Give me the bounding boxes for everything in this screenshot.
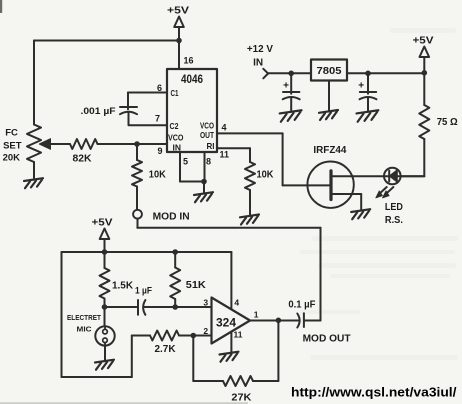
svg-text:LED: LED xyxy=(385,202,403,213)
svg-text:FC: FC xyxy=(5,127,18,138)
svg-text:51K: 51K xyxy=(186,280,207,291)
svg-text:5: 5 xyxy=(183,157,188,167)
svg-text:http://www.qsl.net/va3iul/: http://www.qsl.net/va3iul/ xyxy=(291,384,457,399)
svg-text:3: 3 xyxy=(203,297,208,307)
svg-text:+: + xyxy=(283,80,289,91)
svg-text:+5V: +5V xyxy=(167,6,189,17)
svg-text:C2: C2 xyxy=(170,121,179,131)
svg-text:R.S.: R.S. xyxy=(385,215,403,226)
svg-text:10K: 10K xyxy=(149,170,167,181)
svg-text:2.7K: 2.7K xyxy=(155,344,177,355)
svg-text:7805: 7805 xyxy=(317,65,342,77)
svg-text:8: 8 xyxy=(206,157,211,167)
svg-text:ELECTRET: ELECTRET xyxy=(67,313,101,322)
svg-text:+5V: +5V xyxy=(413,36,434,47)
svg-text:1.5K: 1.5K xyxy=(112,281,134,292)
svg-text:RI: RI xyxy=(207,141,215,151)
svg-text:IN: IN xyxy=(253,58,263,69)
svg-text:+5V: +5V xyxy=(92,217,113,228)
svg-text:MOD OUT: MOD OUT xyxy=(303,333,351,344)
svg-text:VCO: VCO xyxy=(200,122,214,131)
svg-text:16: 16 xyxy=(184,56,194,66)
svg-text:OUT: OUT xyxy=(200,131,214,140)
svg-text:75 Ω: 75 Ω xyxy=(437,117,458,128)
svg-text:2: 2 xyxy=(203,326,208,336)
svg-text:MOD IN: MOD IN xyxy=(153,212,190,223)
svg-text:C1: C1 xyxy=(171,88,179,98)
svg-text:1: 1 xyxy=(254,309,259,319)
svg-text:MIC: MIC xyxy=(77,325,93,334)
svg-text:4046: 4046 xyxy=(181,74,203,86)
svg-text:SET: SET xyxy=(3,141,22,152)
svg-text:7: 7 xyxy=(155,113,160,123)
svg-text:+12 V: +12 V xyxy=(247,44,273,55)
svg-text:11: 11 xyxy=(220,149,230,159)
svg-text:IN: IN xyxy=(173,143,182,152)
svg-text:27K: 27K xyxy=(231,392,251,404)
svg-text:9: 9 xyxy=(157,146,162,156)
svg-text:0.1 µF: 0.1 µF xyxy=(288,299,315,310)
svg-text:20K: 20K xyxy=(3,153,21,164)
svg-text:4: 4 xyxy=(234,298,239,308)
svg-text:.001 µF: .001 µF xyxy=(81,106,116,117)
svg-text:11: 11 xyxy=(234,329,243,339)
svg-text:+: + xyxy=(358,80,364,91)
svg-text:4: 4 xyxy=(222,123,227,133)
svg-text:1 µF: 1 µF xyxy=(135,285,152,296)
svg-text:82K: 82K xyxy=(73,154,93,165)
svg-text:VCO: VCO xyxy=(168,134,184,143)
svg-text:6: 6 xyxy=(157,83,162,93)
svg-text:10K: 10K xyxy=(257,170,275,181)
svg-text:324: 324 xyxy=(216,318,237,330)
svg-text:IRFZ44: IRFZ44 xyxy=(313,145,346,156)
